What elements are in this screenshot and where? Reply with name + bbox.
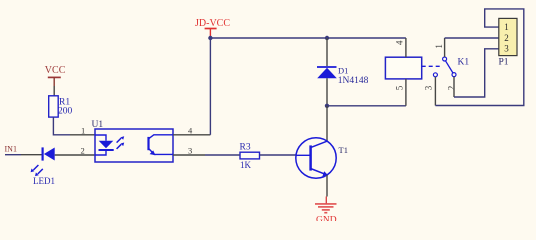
power port VCC [45, 65, 66, 86]
diode D1 [317, 66, 369, 87]
wire JD-VCC down to U1 pin 4 [209, 38, 211, 135]
svg-text:2: 2 [446, 86, 456, 91]
svg-text:IN1: IN1 [5, 145, 17, 154]
wire collector node to relay pin 5 [327, 105, 406, 107]
svg-text:2: 2 [504, 33, 509, 43]
power port JD-VCC [195, 18, 230, 37]
svg-text:T1: T1 [339, 145, 348, 155]
relay pin 4 [405, 38, 407, 57]
opto-coupler U1 [92, 120, 174, 162]
wire R1 to U1 pin 1 [53, 117, 70, 135]
junction D1 top node [325, 36, 329, 40]
wire VCC to R1 [53, 86, 55, 97]
pin 4 of U1 [173, 134, 210, 136]
junction JD-VCC node [208, 36, 212, 40]
ground [315, 197, 337, 226]
wire D1 to collector node [326, 78, 328, 106]
U1 internal LED [95, 135, 106, 141]
svg-text:200: 200 [58, 107, 73, 117]
svg-text:1: 1 [81, 126, 85, 136]
diode LED1 [31, 147, 55, 186]
relay actuator dashed link [422, 65, 442, 67]
svg-text:5: 5 [394, 85, 404, 90]
svg-text:LED1: LED1 [33, 176, 55, 186]
svg-text:1N4148: 1N4148 [338, 76, 369, 86]
wire R3 to T1 base [205, 154, 240, 156]
resistor R3 [240, 143, 260, 170]
svg-text:1: 1 [434, 44, 444, 49]
wire K1 contact 2 to P1 pin 3 [454, 49, 499, 97]
svg-text:GND: GND [316, 215, 337, 221]
switch K1 [424, 38, 470, 106]
svg-text:D1: D1 [338, 66, 348, 76]
svg-text:JD-VCC: JD-VCC [195, 18, 230, 29]
common contact [443, 57, 447, 61]
svg-text:R3: R3 [240, 143, 251, 153]
svg-text:K1: K1 [458, 57, 470, 67]
wire collector node down to T1 [326, 106, 328, 142]
wire contact 3 down [434, 77, 436, 106]
junction collector node [325, 104, 329, 108]
svg-text:3: 3 [504, 44, 509, 54]
wire IN1 to LED1 [5, 154, 21, 156]
svg-text:VCC: VCC [45, 65, 66, 76]
transistor T1 [296, 138, 348, 178]
relay pin 5 [405, 79, 407, 106]
U1 internal transistor [147, 137, 149, 150]
wire top rail to D1 [326, 38, 328, 66]
svg-text:P1: P1 [499, 58, 509, 68]
svg-text:3: 3 [188, 145, 192, 155]
wire common up [444, 38, 446, 57]
svg-text:2: 2 [81, 145, 85, 155]
connector P1 [499, 18, 518, 67]
contact 3 [433, 73, 437, 77]
wire contact 2 down [453, 77, 455, 97]
pin 1 of U1 [70, 134, 95, 136]
svg-text:1: 1 [504, 22, 509, 32]
wire P1 pin 1 loop to K1 contact 3 [435, 9, 523, 106]
U1 light arrows [117, 138, 122, 143]
wire LED1 to U1 pin 2 [55, 154, 95, 156]
svg-text:3: 3 [424, 85, 434, 90]
wire JD-VCC top rail [210, 37, 406, 39]
svg-text:4: 4 [394, 40, 404, 45]
resistor R1 [49, 96, 73, 117]
contact 2 [452, 73, 456, 77]
relay coil [385, 38, 441, 106]
wire K1 common to P1 pin 2 [445, 37, 499, 39]
armature [446, 61, 453, 73]
wire T1 emitter to GND [326, 175, 328, 197]
svg-text:1K: 1K [240, 160, 252, 170]
pin 3 of U1 [173, 154, 205, 156]
